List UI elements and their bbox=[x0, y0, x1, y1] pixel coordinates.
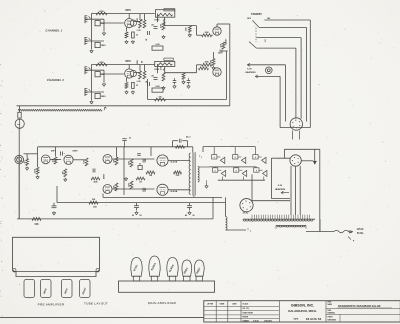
svg-text:SCALE: SCALE bbox=[243, 303, 250, 306]
svg-text:6L6GA: 6L6GA bbox=[171, 190, 178, 193]
svg-text:.02: .02 bbox=[145, 159, 147, 161]
svg-text:6L6GA: 6L6GA bbox=[171, 161, 178, 164]
svg-text:100: 100 bbox=[139, 182, 142, 184]
svg-text:15K: 15K bbox=[34, 224, 39, 226]
svg-text:470K: 470K bbox=[99, 10, 104, 13]
svg-text:GIBSON, INC.: GIBSON, INC. bbox=[291, 304, 314, 308]
svg-text:0.005: 0.005 bbox=[155, 86, 159, 88]
svg-text:DATE: DATE bbox=[294, 318, 300, 321]
svg-text:DR. TOL.: DR. TOL. bbox=[243, 308, 251, 310]
svg-text:470K: 470K bbox=[99, 61, 104, 64]
svg-text:CHECKED: CHECKED bbox=[264, 320, 273, 322]
svg-text:.001: .001 bbox=[151, 76, 154, 78]
svg-text:MAIN AMPLIFIER: MAIN AMPLIFIER bbox=[148, 301, 177, 305]
svg-text:T: T bbox=[247, 228, 249, 232]
svg-text:.02: .02 bbox=[146, 81, 148, 83]
svg-text:FINISH: FINISH bbox=[328, 316, 333, 318]
svg-text:.02: .02 bbox=[145, 189, 147, 191]
svg-text:STANDBY: STANDBY bbox=[251, 13, 262, 16]
svg-text:6.3V: 6.3V bbox=[247, 68, 252, 70]
svg-text:5879: 5879 bbox=[125, 9, 131, 12]
svg-text:8: 8 bbox=[215, 170, 216, 172]
svg-text:KALAMAZOO, MICH.: KALAMAZOO, MICH. bbox=[288, 309, 317, 313]
svg-text:0.1M: 0.1M bbox=[137, 81, 141, 83]
svg-text:18 AUG 53: 18 AUG 53 bbox=[306, 317, 322, 321]
svg-text:HEATERS: HEATERS bbox=[275, 188, 286, 191]
svg-text:LETTER: LETTER bbox=[207, 303, 214, 305]
svg-text:12AX7: 12AX7 bbox=[225, 38, 228, 45]
svg-text:0.1M: 0.1M bbox=[84, 160, 86, 164]
svg-text:0.1M: 0.1M bbox=[137, 30, 141, 32]
svg-text:1 MEG: 1 MEG bbox=[154, 69, 160, 71]
svg-text:117AC: 117AC bbox=[356, 228, 363, 231]
svg-text:S.E.E.: S.E.E. bbox=[253, 321, 260, 323]
svg-text:8: 8 bbox=[236, 170, 237, 172]
svg-text:FINISH: FINISH bbox=[243, 316, 249, 318]
svg-text:0.005: 0.005 bbox=[155, 44, 159, 46]
svg-text:SCHEMATIC DIAGRAM GA-90: SCHEMATIC DIAGRAM GA-90 bbox=[338, 304, 381, 308]
svg-text:6SN7: 6SN7 bbox=[104, 173, 106, 179]
svg-text:1MEG: 1MEG bbox=[101, 45, 106, 47]
svg-text:6.3V: 6.3V bbox=[278, 185, 283, 187]
svg-text:1MEG: 1MEG bbox=[101, 96, 106, 98]
svg-text:CHANNEL 1: CHANNEL 1 bbox=[45, 29, 62, 33]
svg-text:DWG.: DWG. bbox=[328, 310, 333, 312]
svg-text:6SF5: 6SF5 bbox=[51, 151, 57, 153]
svg-text:.001: .001 bbox=[151, 25, 154, 27]
svg-text:25: 25 bbox=[136, 85, 138, 87]
svg-text:.02: .02 bbox=[217, 53, 219, 55]
svg-text:5Y3G: 5Y3G bbox=[243, 212, 249, 214]
svg-text:22K: 22K bbox=[93, 206, 97, 208]
svg-text:40 µf: 40 µf bbox=[186, 136, 191, 139]
svg-text:HEATERS: HEATERS bbox=[245, 71, 256, 74]
svg-text:50-60~: 50-60~ bbox=[357, 233, 365, 235]
svg-text:400: 400 bbox=[23, 161, 26, 164]
svg-text:1 MEG: 1 MEG bbox=[154, 19, 160, 21]
svg-text:5879: 5879 bbox=[125, 60, 131, 63]
svg-text:HEAT TREAT: HEAT TREAT bbox=[243, 311, 254, 314]
svg-text:ON: ON bbox=[267, 18, 271, 20]
svg-text:8: 8 bbox=[256, 170, 257, 172]
svg-text:25: 25 bbox=[136, 35, 138, 37]
svg-text:OFF: OFF bbox=[247, 18, 252, 20]
svg-text:DRAWN: DRAWN bbox=[243, 319, 250, 322]
svg-text:PRE AMPLIFIER: PRE AMPLIFIER bbox=[38, 303, 65, 307]
svg-text:25: 25 bbox=[139, 163, 141, 165]
